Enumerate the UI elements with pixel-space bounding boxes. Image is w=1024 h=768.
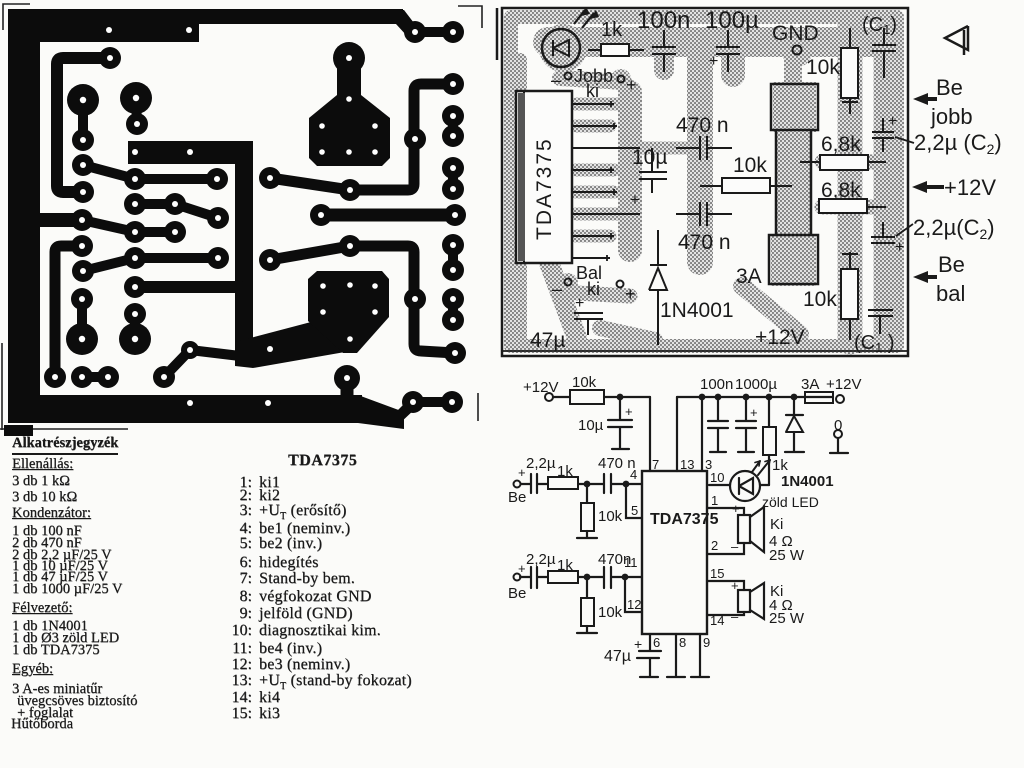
svg-text:+: + xyxy=(518,465,526,480)
svg-text:Be: Be xyxy=(508,489,526,506)
svg-text:+: + xyxy=(625,284,636,304)
svg-text:7: 7 xyxy=(652,457,659,472)
svg-text:+: + xyxy=(732,501,740,516)
svg-text:47µ: 47µ xyxy=(530,329,565,352)
svg-text:ki: ki xyxy=(587,279,600,299)
svg-text:+12V: +12V xyxy=(826,376,861,393)
svg-text:+12V: +12V xyxy=(944,175,996,200)
svg-text:8: 8 xyxy=(679,635,686,650)
svg-text:6,8k: 6,8k xyxy=(821,133,861,156)
svg-text:15: 15 xyxy=(710,566,724,581)
svg-text:25 W: 25 W xyxy=(769,547,805,564)
svg-text:+: + xyxy=(625,404,633,419)
svg-text:2,2µ: 2,2µ xyxy=(526,455,556,472)
svg-text:Be: Be xyxy=(936,75,963,100)
svg-text:2,2µ(C2): 2,2µ(C2) xyxy=(913,215,995,242)
svg-text:+12V: +12V xyxy=(755,326,805,349)
svg-text:1k: 1k xyxy=(557,463,573,480)
svg-text:+: + xyxy=(630,190,640,209)
svg-text:6: 6 xyxy=(653,635,660,650)
svg-text:10k: 10k xyxy=(803,288,837,311)
svg-text:TDA7375: TDA7375 xyxy=(533,137,556,240)
svg-text:470 n: 470 n xyxy=(598,455,636,472)
svg-text:Be: Be xyxy=(508,585,526,602)
svg-text:1k: 1k xyxy=(557,557,573,574)
svg-text:+: + xyxy=(731,578,739,593)
svg-text:100n: 100n xyxy=(700,376,733,393)
svg-text:+: + xyxy=(626,75,637,95)
svg-text:470 n: 470 n xyxy=(676,114,729,137)
svg-text:10k: 10k xyxy=(598,604,623,621)
svg-text:1N4001: 1N4001 xyxy=(660,299,734,322)
svg-text:1k: 1k xyxy=(601,19,623,41)
svg-text:12: 12 xyxy=(627,597,641,612)
svg-text:10µ: 10µ xyxy=(578,417,604,434)
svg-text:10k: 10k xyxy=(598,508,623,525)
svg-text:+: + xyxy=(575,295,584,312)
svg-text:Ki: Ki xyxy=(770,516,783,533)
svg-text:–: – xyxy=(552,279,562,299)
svg-text:+: + xyxy=(709,53,718,70)
svg-text:ki: ki xyxy=(586,81,599,101)
svg-text:10: 10 xyxy=(710,470,724,485)
svg-text:–: – xyxy=(551,70,561,90)
svg-text:GND: GND xyxy=(772,22,819,45)
svg-text:jobb: jobb xyxy=(930,104,973,129)
svg-text:TDA7375: TDA7375 xyxy=(650,511,719,528)
svg-text:9: 9 xyxy=(703,635,710,650)
svg-text:3A: 3A xyxy=(801,376,819,393)
svg-text:bal: bal xyxy=(936,281,965,306)
svg-text:zöld LED: zöld LED xyxy=(762,494,819,510)
svg-text:+: + xyxy=(888,113,897,130)
svg-text:5: 5 xyxy=(631,503,638,518)
svg-text:14: 14 xyxy=(710,613,724,628)
svg-text:25 W: 25 W xyxy=(769,610,805,627)
svg-text:10k: 10k xyxy=(806,56,840,79)
svg-text:2,2µ (C2): 2,2µ (C2) xyxy=(914,130,1002,157)
svg-text:100n: 100n xyxy=(637,7,690,34)
svg-text:10k: 10k xyxy=(572,374,597,391)
svg-text:+: + xyxy=(895,239,904,256)
svg-text:470 n: 470 n xyxy=(678,231,731,254)
svg-text:1k: 1k xyxy=(772,457,788,474)
svg-text:6,8k: 6,8k xyxy=(821,179,861,202)
svg-text:1: 1 xyxy=(711,493,718,508)
svg-text:47µ: 47µ xyxy=(604,648,631,665)
svg-text:–: – xyxy=(731,539,739,554)
svg-text:+12V: +12V xyxy=(523,379,558,396)
svg-text:10µ: 10µ xyxy=(632,146,667,169)
svg-text:1N4001: 1N4001 xyxy=(781,473,834,490)
svg-text:2,2µ: 2,2µ xyxy=(526,551,556,568)
svg-text:Be: Be xyxy=(938,252,965,277)
svg-text:1000µ: 1000µ xyxy=(735,376,777,393)
svg-text:(C1 ): (C1 ) xyxy=(854,332,895,355)
svg-text:10k: 10k xyxy=(733,154,767,177)
svg-text:(C1): (C1) xyxy=(862,14,897,37)
svg-text:+: + xyxy=(750,405,758,420)
svg-text:470n: 470n xyxy=(598,551,631,568)
svg-text:2: 2 xyxy=(711,538,718,553)
svg-text:–: – xyxy=(731,609,739,624)
svg-text:+: + xyxy=(634,636,642,652)
svg-text:0: 0 xyxy=(834,417,842,434)
svg-text:100µ: 100µ xyxy=(705,7,759,34)
svg-text:+: + xyxy=(518,561,526,576)
svg-text:3A: 3A xyxy=(736,265,762,288)
svg-text:13: 13 xyxy=(680,457,694,472)
